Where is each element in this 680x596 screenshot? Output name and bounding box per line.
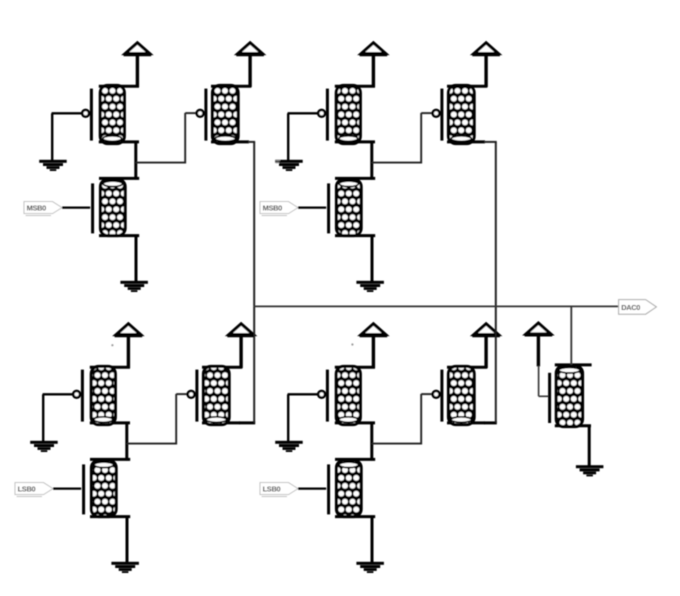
wire node to gate of M1B (horizontal) — [136, 162, 185, 164]
wire node to gate of M4B (vertical) — [420, 394, 422, 445]
transistor M4N (NMOS switch, gate LSB0) — [329, 459, 376, 516]
wire gate of M2A — [288, 112, 319, 114]
wire VDD stem — [248, 54, 251, 87]
wire gate of M4A — [288, 393, 319, 395]
wire LSB0 to NMOS gate — [53, 488, 81, 490]
transistor M1B (PMOS, mirror output device) — [197, 85, 252, 143]
transistor M4B (PMOS, mirror output device) — [433, 366, 488, 424]
transistor M9 (dummy output device) — [550, 365, 592, 427]
wire M2N source to ground — [371, 236, 374, 282]
wire M4B drain to output bus (vertical) — [495, 306, 497, 423]
wire M2A drain to NMOS drain — [370, 142, 373, 180]
speck artifact — [111, 344, 113, 346]
power VDD arrow (cell M3, over PMOS M3A) — [115, 324, 143, 336]
ground (gate of M1A) — [39, 160, 66, 171]
wire bus junction down to M9 drain — [570, 306, 572, 365]
ground (gate of M3A) — [30, 441, 58, 452]
wire gate of M3A — [43, 393, 74, 395]
wire M4B drain to output bus (horizontal jog) — [484, 421, 497, 424]
node label DAC0 (output tag) — [619, 300, 657, 315]
transistor M2N (NMOS switch, gate MSB0) — [329, 178, 376, 235]
wire node to gate of M2B (vertical) — [420, 113, 422, 164]
transistor M3A (PMOS, diode-ref device) — [73, 366, 130, 424]
speck artifact — [351, 343, 353, 345]
ground (source of M3N) — [111, 562, 138, 573]
ground (gate of M4A) — [275, 441, 303, 452]
power VDD arrow (cell M4, over PMOS M4B) — [472, 324, 500, 336]
power VDD arrow (dummy M9 gate) — [525, 323, 553, 335]
wire gate of M1A — [52, 112, 83, 114]
wire M9 gate horizontal — [539, 395, 549, 397]
wire gate-to-ground vertical — [51, 113, 53, 160]
svg-text:LSB0: LSB0 — [263, 485, 281, 494]
wire M3A drain to NMOS drain — [125, 423, 128, 461]
wire node to gate of M3B (vertical) — [175, 394, 177, 445]
ground (gate of M2A) — [275, 160, 303, 171]
wire M4A drain to NMOS drain — [370, 423, 373, 461]
wire node to gate of M3B (horizontal) — [127, 443, 176, 445]
wire M1N source to ground — [135, 236, 138, 282]
svg-text:DAC0: DAC0 — [621, 303, 640, 312]
ground (source of M1N) — [120, 281, 147, 292]
wire VDD stem — [484, 335, 487, 368]
wire VDD stem (dummy M9) — [537, 334, 540, 367]
wire VDD stem — [239, 335, 242, 368]
wire M1B drain to output bus (horizontal jog) — [248, 141, 255, 143]
ground (source of M4N) — [356, 562, 384, 573]
wire gate-to-ground vertical — [287, 113, 289, 160]
wire M2B drain to output bus (horizontal jog) — [484, 141, 497, 143]
ground (source of M2N) — [356, 281, 384, 292]
svg-text:LSB0: LSB0 — [18, 485, 36, 494]
wire MSB0 to NMOS gate — [62, 207, 90, 209]
wire node to gate of M1B (vertical) — [184, 113, 186, 164]
power VDD arrow (cell M3, over PMOS M3B) — [227, 324, 255, 336]
wire node to gate of M4B (horizontal) — [372, 443, 421, 445]
transistor M4A (PMOS, diode-ref device) — [318, 366, 375, 424]
transistor M1A (PMOS, diode-ref device) — [82, 85, 139, 143]
wire M3B drain to output bus (vertical) — [253, 306, 255, 423]
wire into gate bubble of M3B — [176, 393, 187, 395]
wire gate-to-ground vertical — [42, 394, 44, 441]
transistor M2B (PMOS, mirror output device) — [433, 85, 488, 143]
power VDD arrow (cell M1, over PMOS M1B) — [236, 43, 264, 55]
wire M1B drain to output bus (vertical) — [253, 142, 255, 307]
node label LSB0 (input tag) — [260, 483, 298, 497]
wire M3B drain to output bus (horizontal jog) — [239, 421, 255, 424]
wire VDD stem — [136, 54, 139, 87]
wire gate-to-ground vertical — [287, 394, 289, 441]
wire into gate bubble of M4B — [421, 393, 432, 395]
power VDD arrow (cell M1, over PMOS M1A) — [124, 43, 152, 55]
wire output bus to DAC0 — [254, 305, 618, 307]
wire VDD stem — [372, 54, 375, 87]
wire M2B drain to output bus (vertical) — [495, 142, 497, 307]
wire M4N source to ground — [371, 517, 374, 563]
speck artifact — [276, 160, 280, 164]
ground (source of M9) — [576, 465, 604, 476]
wire VDD stem — [127, 335, 130, 368]
power VDD arrow (cell M2, over PMOS M2A) — [360, 43, 388, 55]
svg-text:MSB0: MSB0 — [27, 204, 47, 213]
transistor M2A (PMOS, diode-ref device) — [318, 85, 375, 143]
wire into gate bubble of M1B — [185, 112, 196, 114]
wire M1A drain to NMOS drain — [134, 142, 137, 180]
wire MSB0 to NMOS gate — [298, 207, 326, 209]
node label MSB0 (input tag) — [260, 202, 298, 216]
wire LSB0 to NMOS gate — [298, 488, 326, 490]
power VDD arrow (cell M4, over PMOS M4A) — [360, 324, 388, 336]
power VDD arrow (cell M2, over PMOS M2B) — [472, 43, 500, 55]
transistor M1N (NMOS switch, gate MSB0) — [93, 178, 140, 235]
node label MSB0 (input tag) — [24, 202, 62, 216]
wire M9 source to ground — [588, 426, 591, 466]
wire VDD stem — [372, 335, 375, 368]
transistor M3B (PMOS, mirror output device) — [188, 366, 243, 424]
node label LSB0 (input tag) — [15, 483, 53, 497]
wire into gate bubble of M2B — [421, 112, 432, 114]
svg-text:MSB0: MSB0 — [263, 204, 283, 213]
wire VDD stem — [484, 54, 487, 87]
transistor M3N (NMOS switch, gate LSB0) — [84, 459, 131, 516]
wire M3N source to ground — [126, 517, 129, 563]
wire M9 gate vertical — [538, 366, 540, 397]
wire node to gate of M2B (horizontal) — [372, 162, 421, 164]
